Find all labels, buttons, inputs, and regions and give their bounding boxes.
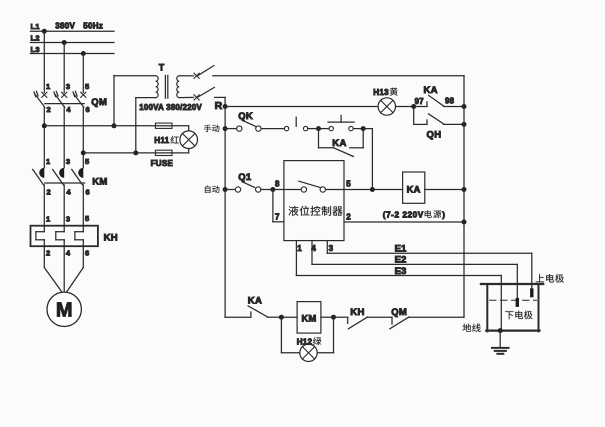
switch QK — [237, 126, 242, 131]
switch Q1 — [235, 187, 240, 192]
electrode upper bar — [530, 288, 533, 297]
wire to button SB2 — [319, 128, 330, 130]
svg-text:H12: H12 — [297, 338, 313, 347]
thermal element pole 1 — [36, 226, 44, 247]
wire phase3 KM to KH — [82, 185, 84, 226]
level controller name label — [289, 206, 343, 216]
contactor KM pole 2 contact — [53, 168, 65, 185]
svg-text:QH: QH — [427, 129, 442, 140]
svg-text:QM: QM — [91, 97, 107, 108]
wire KA coil to right bus — [425, 189, 464, 191]
wire phase3 to motor — [82, 246, 84, 267]
lower electrode label — [505, 311, 532, 319]
wire terminal1 drop — [295, 241, 297, 276]
junction on L3 — [81, 51, 86, 56]
junction auto row — [223, 187, 228, 192]
wire fuse row bottom — [136, 152, 189, 154]
wire transformer primary feed bottom — [83, 152, 136, 154]
wire lamp H11 top lead — [188, 126, 190, 131]
svg-text:5: 5 — [85, 214, 89, 223]
tank bottom — [486, 330, 539, 332]
fuse FUSE upper — [155, 123, 172, 128]
wire primary top riser — [113, 76, 115, 126]
wire right bus — [463, 76, 465, 317]
junction phase3 transformer tap — [81, 150, 86, 155]
svg-text:KH: KH — [104, 232, 118, 243]
svg-text:2: 2 — [47, 187, 51, 196]
svg-text:50Hz: 50Hz — [83, 22, 103, 31]
breaker aux contact QM — [391, 317, 393, 324]
relay contact KA bottom — [250, 312, 252, 317]
svg-text:FUSE: FUSE — [151, 159, 174, 168]
junction KM coil left — [279, 315, 284, 320]
wire phase 3 QM to KM — [82, 107, 84, 167]
wire bottom rail left — [225, 316, 251, 318]
svg-text:1: 1 — [46, 82, 50, 91]
wire lamp H13 to node 97 — [396, 106, 414, 108]
thermal element pole 3 — [75, 226, 83, 247]
wire E2 — [312, 263, 517, 265]
svg-text:6: 6 — [86, 187, 90, 196]
svg-text:6: 6 — [85, 249, 89, 258]
junction tank bottom — [498, 328, 503, 333]
wire secondary bottom lead — [179, 96, 193, 98]
junction phase1 transformer tap — [42, 123, 47, 128]
wire node R to lamp H13 — [225, 106, 378, 108]
wire transformer primary feed top — [44, 125, 114, 127]
wire KA holding right leg — [362, 129, 364, 148]
svg-text:1: 1 — [46, 157, 50, 166]
contactor KM pole 1 contact — [33, 168, 45, 185]
svg-text:KA: KA — [332, 138, 346, 149]
junction node 97 — [411, 104, 416, 109]
auto row label zidong — [205, 186, 219, 193]
contact QH — [414, 123, 427, 125]
svg-text:KH: KH — [350, 307, 364, 318]
wire terminal2 to right bus — [344, 221, 464, 223]
wire L1 rail — [31, 30, 115, 32]
wire KA to KM junction — [267, 316, 281, 318]
wire E1 — [327, 252, 532, 254]
wire manual row end — [363, 128, 372, 130]
wire phase 1 drop — [43, 31, 45, 92]
svg-text:3: 3 — [329, 244, 334, 253]
junction node R — [223, 104, 228, 109]
transformer T secondary winding — [177, 76, 179, 98]
ground symbol — [492, 347, 509, 349]
svg-text:5: 5 — [85, 157, 89, 166]
wire to ground — [499, 331, 501, 348]
switch arm lower secondary — [198, 87, 214, 97]
pushbutton SB2 — [329, 126, 333, 130]
wire internal left — [284, 189, 301, 191]
junction right bus QH — [462, 122, 467, 127]
wire phase 2 drop — [63, 43, 65, 93]
level controller box — [284, 161, 344, 241]
svg-text:KM: KM — [301, 313, 316, 323]
thermal relay KH box — [31, 226, 98, 247]
svg-text:5: 5 — [85, 82, 89, 91]
wire Q1 to node 8 — [261, 189, 273, 191]
wire node97 drop to QH — [413, 107, 415, 125]
electrode lower bar — [516, 298, 519, 307]
QM linkage bar — [45, 103, 84, 105]
wire primary bottom lead — [136, 97, 156, 99]
wire KM coil out — [321, 316, 334, 318]
wire to switch QK — [225, 128, 237, 130]
wire L2 rail — [31, 42, 115, 44]
svg-text:4: 4 — [66, 249, 71, 258]
transformer T core — [164, 75, 166, 98]
wire phase1 KM to KH — [43, 185, 45, 226]
junction right bus terminal2 — [462, 220, 467, 225]
pushbutton SB1 — [284, 126, 288, 130]
junction SB1 out — [316, 126, 321, 131]
junction primary top riser — [112, 123, 117, 128]
svg-text:97: 97 — [415, 97, 424, 106]
wire manual drop to KA coil row — [371, 129, 373, 190]
svg-text:2: 2 — [46, 249, 50, 258]
KM linkage bar — [45, 182, 85, 184]
svg-text:M: M — [56, 300, 73, 322]
svg-text:R: R — [215, 100, 223, 112]
circuit-breaker QM pole 3 contact — [73, 91, 86, 107]
relay contact KA 97-98 — [414, 106, 427, 108]
switch arm upper secondary — [198, 66, 214, 76]
contact X lower secondary — [194, 95, 199, 100]
circuit-breaker QM pole 1 contact — [34, 91, 47, 107]
manual row label shoudong — [204, 125, 219, 132]
junction on L1 — [42, 29, 47, 34]
motor M — [47, 292, 81, 326]
upper electrode label — [536, 274, 564, 283]
wire primary top lead — [114, 75, 156, 77]
contactor coil KM — [297, 302, 321, 334]
wire SB2 out — [353, 128, 363, 130]
wire H12 branch left — [280, 317, 282, 353]
wire fuse row top — [114, 125, 189, 127]
wire into terminal 8 — [273, 189, 284, 191]
svg-text:KA: KA — [248, 295, 262, 306]
lamp H12 green indicator — [300, 344, 317, 361]
junction primary bottom riser — [133, 150, 138, 155]
svg-text:98: 98 — [445, 97, 455, 106]
wire E3 — [296, 275, 501, 277]
wire control riser R down — [224, 107, 226, 318]
junction KM coil right — [331, 315, 336, 320]
svg-text:3: 3 — [66, 157, 70, 166]
svg-text:H13: H13 — [373, 88, 389, 97]
wire to switch Q1 — [225, 189, 235, 191]
contact X upper secondary — [194, 73, 199, 78]
fuse FUSE lower — [155, 150, 172, 155]
wire L3 rail — [31, 53, 115, 55]
svg-text:QK: QK — [238, 111, 253, 122]
wire internal right — [326, 189, 345, 191]
svg-text:1: 1 — [297, 244, 302, 253]
wire to node R — [215, 96, 225, 98]
svg-text:1: 1 — [46, 215, 50, 224]
lamp H13 yellow indicator — [378, 98, 395, 115]
svg-text:380V: 380V — [55, 22, 75, 31]
svg-text:L2: L2 — [31, 34, 40, 43]
wire phase 3 drop — [82, 54, 84, 93]
thermal element pole 2 — [56, 226, 64, 247]
junction SB2 out — [361, 126, 366, 131]
svg-text:5: 5 — [346, 179, 351, 188]
junction right bus top — [462, 104, 467, 109]
wire H12 branch right — [317, 352, 333, 354]
svg-text:QM: QM — [391, 307, 407, 318]
contactor KM pole 3 contact — [72, 168, 84, 185]
svg-text:2: 2 — [47, 105, 51, 114]
wire lamp H11 bottom lead — [188, 148, 190, 153]
junction manual row — [223, 126, 228, 131]
wire terminal5 to KA coil — [344, 189, 403, 191]
wire QK to button SB1 — [261, 128, 284, 130]
internal switch — [301, 187, 306, 192]
wire top bus — [213, 75, 464, 77]
svg-text:4: 4 — [66, 187, 71, 196]
svg-text:3: 3 — [66, 82, 70, 91]
wire node8 down to terminal 7 — [272, 190, 274, 222]
circuit-breaker QM pole 2 contact — [54, 91, 67, 107]
tank right wall — [538, 284, 540, 331]
ground wire label dixian — [463, 324, 481, 332]
junction on L2 — [62, 40, 67, 45]
wire secondary top lead — [179, 75, 193, 77]
svg-text:L3: L3 — [31, 45, 40, 54]
svg-text:7: 7 — [275, 212, 280, 221]
transformer T primary winding — [156, 76, 158, 98]
svg-text:100VA 380/220V: 100VA 380/220V — [139, 103, 202, 112]
wire KA contact to right bus — [443, 106, 464, 108]
junction manual-auto join — [370, 187, 375, 192]
wire QM aux to right bus — [409, 316, 464, 318]
junction right bus KA coil — [462, 187, 467, 192]
tank lid — [481, 283, 543, 285]
wire KH to QM aux — [368, 316, 393, 318]
svg-text:H11: H11 — [154, 136, 169, 145]
wire phase 1 QM to KM — [43, 107, 45, 167]
svg-text:3: 3 — [66, 215, 70, 224]
tank left wall — [486, 284, 488, 331]
lamp H11 red indicator — [180, 131, 198, 149]
svg-text:L1: L1 — [31, 22, 40, 31]
svg-text:T: T — [159, 62, 165, 72]
svg-text:Q1: Q1 — [238, 172, 252, 183]
junction node 8 — [270, 187, 275, 192]
wire QH to right bus — [443, 123, 464, 125]
wire terminal4 drop — [311, 241, 313, 265]
wire KA holding left leg — [318, 129, 320, 148]
relay coil KA — [403, 172, 425, 203]
wire into KM coil — [281, 316, 297, 318]
tank water level dashed — [490, 299, 537, 301]
svg-text:6: 6 — [86, 105, 90, 114]
svg-text:): ) — [442, 210, 445, 219]
svg-text:2: 2 — [346, 212, 351, 221]
wire phase1 to motor — [43, 246, 45, 267]
relay contact KA holding — [319, 147, 334, 149]
svg-text:KA: KA — [407, 185, 421, 195]
svg-text:KM: KM — [92, 177, 107, 188]
wire phase2 KM to KH — [63, 185, 65, 226]
svg-text:4: 4 — [66, 105, 71, 114]
svg-text:(7-2 220V: (7-2 220V — [383, 210, 424, 219]
wire terminal3 drop — [326, 241, 328, 254]
svg-text:8: 8 — [275, 180, 280, 189]
wire SB1 to junction — [308, 128, 319, 130]
wire primary bottom riser — [135, 98, 137, 153]
thermal contact KH — [334, 316, 348, 318]
wire phase2 to motor — [63, 246, 65, 292]
wire phase 2 QM to KM — [63, 107, 65, 167]
svg-text:KA: KA — [424, 85, 438, 96]
